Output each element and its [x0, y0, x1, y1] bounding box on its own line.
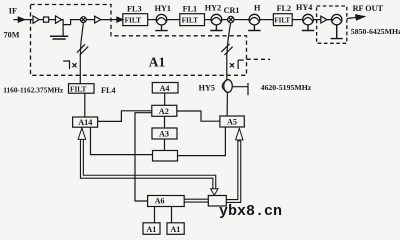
svg-text:IF: IF [9, 7, 17, 16]
wire to FL3 with arrow [101, 19, 118, 21]
wire [313, 19, 321, 21]
HY5 hybrid [224, 80, 233, 93]
wire [222, 19, 228, 21]
svg-text:HY4: HY4 [296, 3, 312, 12]
bus A14 to A6-side box (double-line with open arrows) [78, 128, 218, 195]
mixer [81, 17, 87, 23]
IF input wire with arrow [14, 19, 34, 21]
A4 box [152, 83, 178, 94]
FL3 filter [123, 14, 148, 26]
amplifier 1 [33, 16, 39, 23]
wire A2 to A6 via long vertical [135, 113, 152, 201]
svg-text:CR1: CR1 [224, 6, 240, 15]
output module dashed outline [317, 6, 347, 43]
svg-text:FILT: FILT [125, 16, 141, 25]
coax connector right [238, 60, 244, 69]
svg-text:A1: A1 [149, 54, 165, 69]
wire A14 to sub box [91, 127, 153, 154]
svg-text:HY1: HY1 [155, 4, 171, 13]
svg-text:FL2: FL2 [277, 4, 292, 13]
svg-text:4620-5195MHz: 4620-5195MHz [261, 83, 312, 92]
matching dip wire [62, 20, 81, 25]
svg-text:FL4: FL4 [101, 86, 116, 95]
svg-text:A2: A2 [159, 107, 169, 116]
svg-text:FILT: FILT [274, 17, 290, 25]
A2 box [152, 105, 177, 116]
HY5 output tick [232, 83, 248, 95]
dashed stub right of A1 [247, 58, 271, 60]
svg-text:1160-1162.375MHz: 1160-1162.375MHz [3, 85, 64, 94]
A1 sub box 1 [143, 223, 160, 235]
wire A3 to sub box [164, 139, 166, 151]
FL4 filter [69, 84, 95, 94]
HY4 circulator [303, 14, 314, 25]
FL1 filter [180, 14, 205, 26]
H circulator [249, 14, 260, 25]
wire A5 to sub box [178, 127, 226, 156]
A1 module dashed outline [31, 5, 247, 76]
FL2 filter [273, 14, 292, 26]
A6 box [148, 196, 185, 207]
small box right of A6 [208, 196, 226, 207]
svg-text:FILT: FILT [182, 16, 198, 25]
wire A2 to A5 (step) [177, 111, 220, 121]
svg-text:A1: A1 [146, 225, 156, 234]
bus A6 to small box (double-line) [184, 199, 208, 203]
wire [86, 19, 94, 21]
wire [327, 19, 332, 21]
svg-text:FILT: FILT [70, 84, 86, 93]
amplifier 3 [95, 16, 101, 23]
wire [260, 19, 274, 21]
coax connector left [63, 60, 69, 69]
CR1 mixer [228, 16, 234, 22]
A14 box [73, 117, 98, 127]
svg-text:A4: A4 [160, 84, 170, 93]
output amplifier [321, 16, 327, 23]
wire A2-A3 [164, 116, 166, 128]
wire [39, 19, 43, 21]
bus small box to A5 (double-line with open arrow) [226, 128, 243, 201]
attenuator pad [44, 17, 49, 22]
svg-text:A1: A1 [170, 225, 180, 234]
wire [49, 19, 56, 21]
wire A14 to A2 (step) [98, 111, 152, 122]
wire FL4 to A14 [84, 93, 86, 117]
svg-text:A3: A3 [159, 130, 169, 139]
svg-text:5850-6425MHz: 5850-6425MHz [351, 27, 400, 36]
svg-text:A5: A5 [227, 118, 237, 127]
A3 box [152, 128, 177, 139]
svg-text:A6: A6 [155, 197, 165, 206]
svg-text:A14: A14 [78, 118, 92, 127]
svg-text:FL3: FL3 [127, 5, 142, 14]
svg-text:HY5: HY5 [199, 84, 215, 93]
wire [234, 19, 249, 21]
svg-text:RF OUT: RF OUT [353, 4, 384, 13]
wire HY5 to A5 [226, 92, 228, 116]
svg-text:70M: 70M [4, 30, 20, 39]
wire A4-A2 [164, 93, 166, 105]
LO feed line with break (left) [80, 23, 83, 84]
svg-text:HY2: HY2 [205, 3, 221, 12]
bypass capacitor to ground [62, 25, 64, 36]
svg-text:ybx8.cn: ybx8.cn [219, 203, 282, 220]
wire [148, 19, 157, 21]
svg-text:FL1: FL1 [183, 5, 198, 14]
wire [292, 19, 303, 21]
sub box below A3 [153, 151, 178, 162]
LO feed line with break (right) [227, 23, 231, 80]
wires A6 to A1 boxes [155, 207, 172, 223]
HY2 circulator [211, 14, 222, 25]
HY1 circulator [156, 14, 167, 25]
amplifier 2 [56, 16, 62, 23]
RF OUT wire with arrow [347, 17, 357, 18]
A1 sub box 2 [167, 223, 184, 235]
output circulator [332, 14, 342, 24]
wire [205, 19, 212, 21]
svg-text:H: H [254, 4, 261, 13]
A5 box [220, 116, 244, 127]
